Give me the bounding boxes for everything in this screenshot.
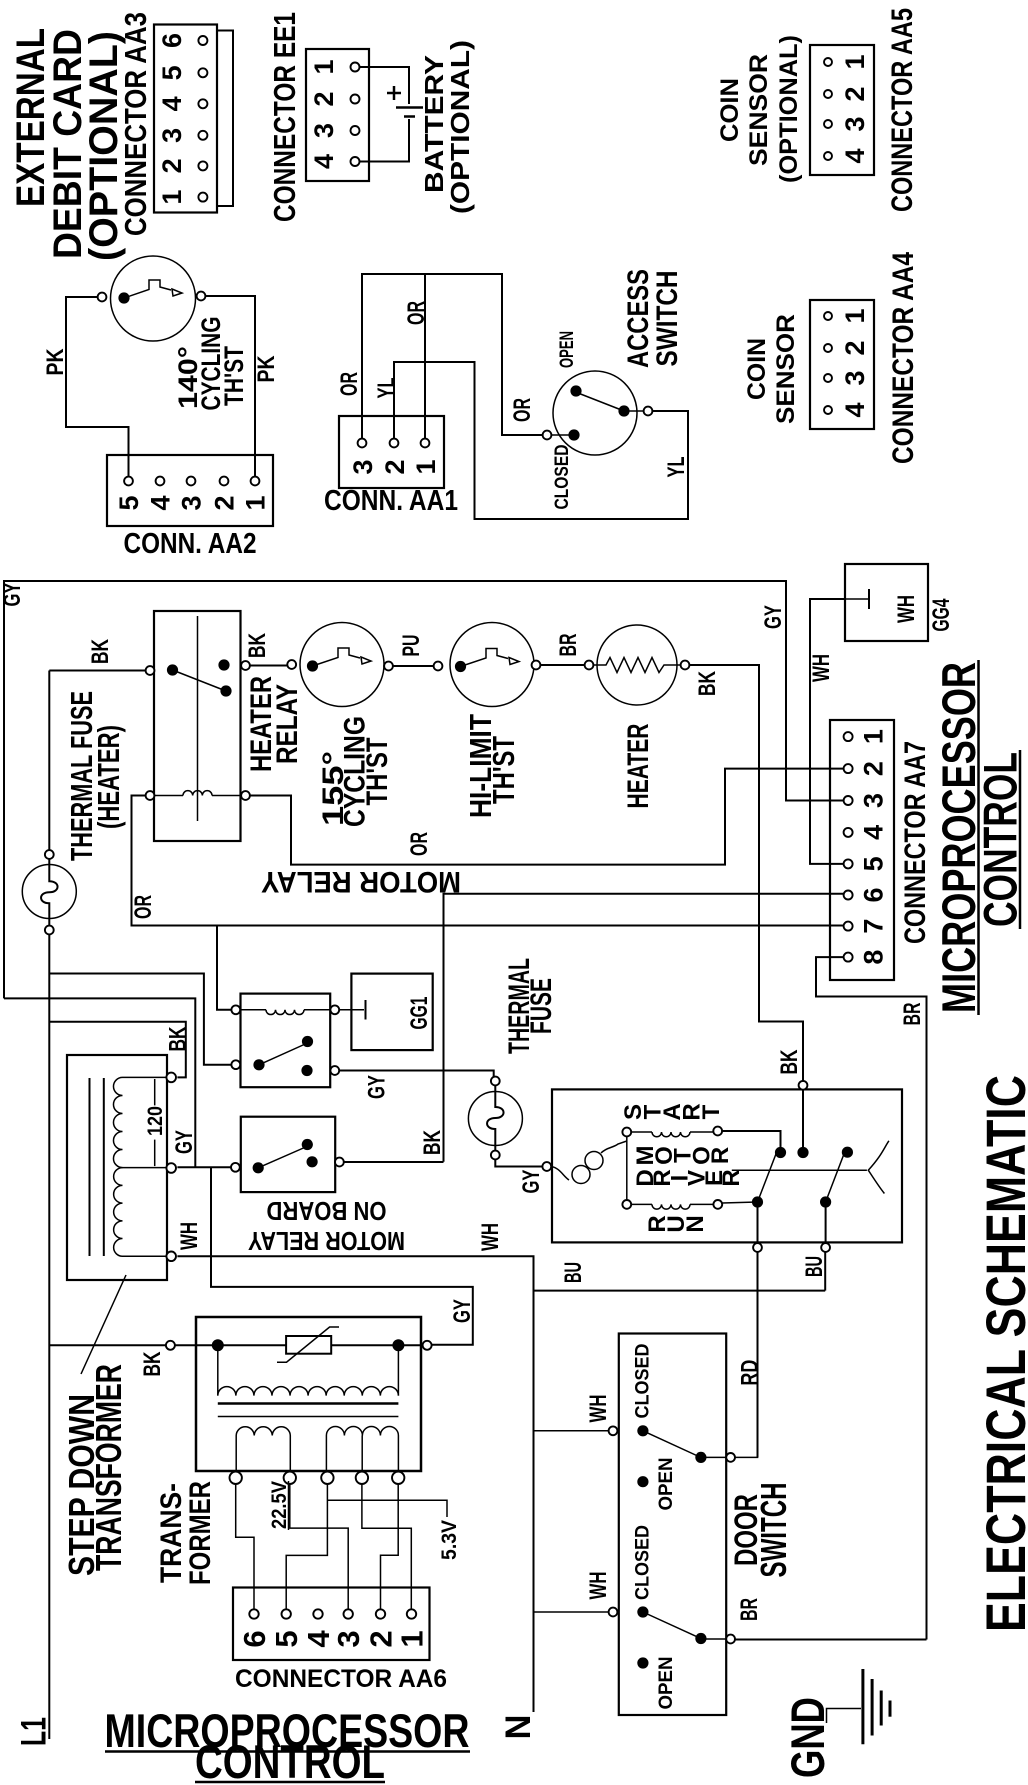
connector AA7 pin 2 xyxy=(844,764,853,773)
connector AA4 pin 3 xyxy=(824,374,832,382)
wire BU from switch2 xyxy=(824,1252,826,1291)
svg-text:2: 2 xyxy=(157,158,187,173)
thermostat 140 cycling body xyxy=(111,256,196,341)
120 volt bracket xyxy=(154,1079,156,1105)
svg-text:CONNECTOR EE1: CONNECTOR EE1 xyxy=(267,12,302,222)
connector AA3 xyxy=(154,25,217,213)
connector EE1 pin 4 xyxy=(351,157,360,166)
svg-text:CONN. AA1: CONN. AA1 xyxy=(324,485,458,517)
svg-text:MOTOR RELAY: MOTOR RELAY xyxy=(248,1226,405,1256)
svg-text:3: 3 xyxy=(859,793,889,808)
wire WH tap3 to N xyxy=(177,1256,533,1712)
wire coil to GG1 xyxy=(339,1009,364,1011)
svg-text:5: 5 xyxy=(114,495,144,510)
svg-text:MOTOR RELAY: MOTOR RELAY xyxy=(261,865,461,898)
svg-text:WH: WH xyxy=(893,595,920,623)
svg-text:4: 4 xyxy=(859,825,889,840)
wire tap2 to AA6 pin3 xyxy=(290,1484,348,1609)
svg-text:CONNECTOR AA6: CONNECTOR AA6 xyxy=(235,1665,447,1693)
connector AA2 pin 2 xyxy=(220,477,229,486)
svg-text:FORMER: FORMER xyxy=(184,1481,217,1585)
wire battery to EE1 pin4 xyxy=(360,119,410,162)
wire tap1 to AA6 pin6 xyxy=(236,1484,254,1609)
wire GY fuse to motor xyxy=(495,1159,542,1166)
wire 5.3V tap xyxy=(327,1500,447,1517)
svg-text:BK: BK xyxy=(139,1351,166,1376)
svg-text:2: 2 xyxy=(380,459,410,474)
wire GY K2 to thermal fuse xyxy=(339,1071,494,1077)
svg-text:RD: RD xyxy=(736,1360,763,1386)
connector AA3 pin 4 xyxy=(198,99,207,108)
svg-text:R: R xyxy=(718,1169,745,1186)
svg-text:OPEN: OPEN xyxy=(656,1657,677,1710)
motor shaft line xyxy=(732,1169,867,1171)
connector AA2 pin 3 xyxy=(187,477,196,486)
svg-text:4: 4 xyxy=(146,495,176,510)
svg-text:SWITCH: SWITCH xyxy=(753,1483,794,1578)
wire BR xyxy=(540,664,584,666)
connector AA7 pin 3 xyxy=(844,796,853,805)
svg-text:3: 3 xyxy=(331,1630,366,1647)
centrifugal actuator chevron xyxy=(868,1141,889,1194)
svg-text:GY: GY xyxy=(518,1170,545,1194)
varistor MOV xyxy=(286,1336,331,1354)
svg-text:1: 1 xyxy=(859,729,889,744)
connector AA5 pin 3 xyxy=(824,120,832,128)
motor centrifugal squiggle xyxy=(551,1167,569,1181)
thermostat 155 cycling body xyxy=(300,623,384,707)
svg-text:PK: PK xyxy=(253,355,280,383)
svg-text:GY: GY xyxy=(449,1299,476,1323)
wire BK L1 to heater relay xyxy=(49,670,145,672)
connector AA6 pin 2 xyxy=(376,1609,385,1618)
svg-text:HEATER: HEATER xyxy=(622,723,655,808)
svg-text:T: T xyxy=(698,1104,725,1119)
K2 coil xyxy=(231,1005,240,1014)
T1 tap circles xyxy=(166,1073,176,1083)
svg-text:FUSE: FUSE xyxy=(525,978,558,1034)
svg-text:COIN: COIN xyxy=(716,78,744,142)
svg-text:(HEATER): (HEATER) xyxy=(91,725,126,829)
svg-text:OPEN: OPEN xyxy=(656,1458,677,1511)
svg-text:TH'ST: TH'ST xyxy=(219,346,249,406)
svg-text:3: 3 xyxy=(840,370,870,385)
svg-text:ON BOARD: ON BOARD xyxy=(267,1196,387,1226)
svg-text:BK: BK xyxy=(165,1026,192,1051)
wire tap2 GY to relay K3 xyxy=(177,1166,231,1168)
T2 core xyxy=(218,1402,399,1405)
wire YL AA1 pin2 xyxy=(394,362,688,519)
ground GG4 symbol xyxy=(845,598,869,600)
svg-text:2: 2 xyxy=(840,340,870,355)
wire tap5 to AA6 pin2 xyxy=(381,1484,399,1609)
svg-text:SENSOR: SENSOR xyxy=(745,54,773,166)
svg-text:PK: PK xyxy=(42,348,69,376)
svg-text:2: 2 xyxy=(859,761,889,776)
connector AA1 xyxy=(339,416,444,488)
connector AA4 pin 1 xyxy=(824,312,832,320)
connector AA5 pin 1 xyxy=(824,58,832,66)
heater resistor zigzag xyxy=(593,658,680,673)
connector AA7 pin 4 xyxy=(844,828,853,837)
wire START to switch xyxy=(722,1131,780,1153)
svg-text:TH'ST: TH'ST xyxy=(486,736,521,804)
connector AA3 pin 5 xyxy=(198,68,207,77)
wire GY rail xyxy=(4,581,843,998)
connector AA3 pin 1 xyxy=(198,193,207,202)
svg-text:BR: BR xyxy=(899,1003,926,1026)
pointer line xyxy=(81,1275,126,1374)
connector AA7 pin 8 xyxy=(844,953,853,962)
svg-text:BK: BK xyxy=(776,1049,803,1074)
svg-text:WH: WH xyxy=(585,1572,612,1600)
svg-text:1: 1 xyxy=(395,1630,430,1647)
wire BR door switch to AA7 xyxy=(735,1639,927,1641)
svg-text:BK: BK xyxy=(87,639,114,664)
svg-text:YL: YL xyxy=(663,457,690,478)
label RD wire xyxy=(735,1456,758,1458)
connector EE1 pin 1 xyxy=(351,63,360,72)
heater relay contact xyxy=(146,666,155,675)
thermostat 155 lever xyxy=(313,648,361,666)
T1 core xyxy=(89,1078,91,1256)
svg-text:BK: BK xyxy=(419,1130,446,1155)
wire GY node down xyxy=(211,1167,473,1345)
svg-text:2: 2 xyxy=(309,91,339,106)
svg-text:1: 1 xyxy=(309,59,339,74)
access switch OPEN contact xyxy=(570,385,581,396)
connector AA4 xyxy=(810,300,874,429)
svg-text:6: 6 xyxy=(237,1630,272,1647)
svg-text:3: 3 xyxy=(309,123,339,138)
door switch 2 xyxy=(609,1608,618,1617)
connector AA2 pin 5 xyxy=(124,477,133,486)
svg-text:CLOSED: CLOSED xyxy=(633,1525,654,1600)
T2 secondary right xyxy=(326,1427,398,1436)
T1 winding xyxy=(113,1077,122,1167)
wire PK right xyxy=(205,296,255,476)
svg-text:6: 6 xyxy=(157,33,187,48)
wire WH GG4 to AA7 pin5 xyxy=(810,599,845,864)
svg-text:R: R xyxy=(707,1147,734,1164)
svg-text:7: 7 xyxy=(859,919,889,934)
T2 secondary left xyxy=(236,1427,290,1436)
heater relay K1 xyxy=(154,611,241,841)
battery B1 xyxy=(396,106,423,109)
svg-text:OR: OR xyxy=(403,301,430,325)
svg-text:1: 1 xyxy=(840,308,870,323)
svg-text:N: N xyxy=(499,1715,538,1740)
svg-text:8: 8 xyxy=(859,950,889,965)
connector AA6 pin 6 xyxy=(249,1609,258,1618)
wire GY rail to GY node xyxy=(4,998,195,1166)
svg-text:2: 2 xyxy=(840,86,870,101)
T2 primary winding xyxy=(217,1345,219,1395)
svg-text:TRANSFORMER: TRANSFORMER xyxy=(88,1364,129,1571)
connector AA4 pin 4 xyxy=(824,406,832,414)
svg-text:GY: GY xyxy=(171,1130,198,1154)
connector AA7 xyxy=(830,720,894,980)
connector AA7 pin 7 xyxy=(844,922,853,931)
T2 primary top wire xyxy=(166,1341,175,1350)
svg-text:CLOSED: CLOSED xyxy=(633,1344,654,1419)
svg-text:WH: WH xyxy=(477,1223,504,1251)
svg-text:OR: OR xyxy=(509,398,536,422)
connector AA7 pin 1 xyxy=(844,732,853,741)
connector EE1 pin 2 xyxy=(351,95,360,104)
wire OR AA1 pin1 xyxy=(424,275,426,439)
wire BR AA7 pin8 xyxy=(816,957,927,1639)
thermostat hi-limit lever xyxy=(461,649,509,667)
connector EE1 xyxy=(306,49,369,181)
connector AA6 pin 5 xyxy=(282,1609,291,1618)
motor relay K2 xyxy=(241,994,331,1088)
heater relay coil xyxy=(146,791,155,800)
svg-text:(OPTIONAL): (OPTIONAL) xyxy=(445,40,475,214)
wire BK L1 to transformer tap1 xyxy=(49,1022,186,1078)
connector AA6 pin 4 xyxy=(313,1609,322,1618)
motor switch 1 xyxy=(752,1196,763,1207)
svg-text:SWITCH: SWITCH xyxy=(651,271,684,367)
svg-text:CONNECTOR AA3: CONNECTOR AA3 xyxy=(118,12,153,236)
access switch contact circles xyxy=(543,431,552,440)
thermostat 140 contacts xyxy=(118,292,129,303)
svg-text:L1: L1 xyxy=(15,1717,54,1746)
svg-text:ELECTRICAL SCHEMATIC: ELECTRICAL SCHEMATIC xyxy=(974,1075,1028,1632)
svg-text:4: 4 xyxy=(840,402,870,417)
svg-text:5: 5 xyxy=(859,856,889,871)
thermostat hi-limit body xyxy=(450,623,534,707)
svg-text:5.3V: 5.3V xyxy=(438,1520,461,1560)
svg-text:OR: OR xyxy=(336,372,363,396)
svg-text:CONTROL: CONTROL xyxy=(974,752,1027,927)
connector AA5 pin 4 xyxy=(824,152,832,160)
K2 contact xyxy=(231,1060,240,1069)
connector AA4 pin 2 xyxy=(824,344,832,352)
transformer T2 box xyxy=(196,1317,421,1471)
svg-text:CONNECTOR AA5: CONNECTOR AA5 xyxy=(886,8,919,212)
connector AA7 pin 6 xyxy=(844,891,853,900)
wire BK into motor xyxy=(799,1081,808,1090)
svg-text:GY: GY xyxy=(0,583,26,607)
connector AA2 pin 1 xyxy=(251,477,260,486)
T2 primary junction dots xyxy=(212,1339,224,1351)
svg-text:CONNECTOR AA4: CONNECTOR AA4 xyxy=(887,252,920,464)
wire WH to door switch 2 xyxy=(534,1611,609,1613)
svg-text:(OPTIONAL): (OPTIONAL) xyxy=(775,35,803,183)
motor M1 box xyxy=(552,1089,902,1242)
svg-text:120: 120 xyxy=(144,1106,167,1136)
svg-text:BU: BU xyxy=(560,1262,587,1283)
wire L1 to transformer T2 xyxy=(49,1344,166,1346)
connector AA7 pin 5 xyxy=(844,859,853,868)
svg-text:5: 5 xyxy=(157,65,187,80)
wire PK left xyxy=(66,297,129,476)
svg-text:4: 4 xyxy=(840,148,870,163)
wire BK heater to motor xyxy=(689,665,803,1081)
wire OR to motor relay coil xyxy=(217,926,231,1010)
START winding xyxy=(622,1128,631,1137)
svg-text:3: 3 xyxy=(157,128,187,143)
svg-text:6: 6 xyxy=(859,887,889,902)
svg-text:BK: BK xyxy=(244,633,271,658)
wire L1 rail xyxy=(48,671,50,851)
connector AA6 pin 3 xyxy=(344,1609,353,1618)
motor GY contact xyxy=(542,1162,551,1171)
connector AA2 pin 4 xyxy=(156,477,165,486)
svg-text:5: 5 xyxy=(269,1630,304,1647)
wire EE1 pin1 to battery xyxy=(360,67,410,104)
wire PU xyxy=(393,665,434,667)
ground GG4 box xyxy=(845,564,928,641)
motor switch 2 xyxy=(842,1147,853,1158)
connector EE1 pin 3 xyxy=(351,126,360,135)
svg-text:YL: YL xyxy=(373,378,400,399)
wire BU line xyxy=(534,1290,826,1292)
svg-text:2: 2 xyxy=(364,1630,399,1647)
connector AA3 pin 6 xyxy=(198,36,207,45)
access switch body xyxy=(553,371,637,455)
wire tap3 to AA6 pin5 xyxy=(286,1484,327,1609)
svg-text:GY: GY xyxy=(364,1075,391,1099)
connector AA1 pin 1 xyxy=(421,439,430,448)
connector AA1 pin 2 xyxy=(390,439,399,448)
step-down transformer T1 xyxy=(67,1055,167,1280)
door switch box xyxy=(619,1334,726,1716)
svg-text:WH: WH xyxy=(176,1222,203,1250)
svg-text:BR: BR xyxy=(736,1598,763,1621)
svg-text:1: 1 xyxy=(840,54,870,69)
motor windings left bus xyxy=(626,1132,628,1204)
svg-text:N: N xyxy=(682,1215,709,1232)
svg-text:CONN. AA2: CONN. AA2 xyxy=(124,528,257,560)
svg-text:1: 1 xyxy=(411,459,441,474)
svg-text:22.5V: 22.5V xyxy=(268,1481,291,1529)
svg-text:OR: OR xyxy=(406,832,433,856)
svg-text:GG4: GG4 xyxy=(928,598,955,631)
svg-text:4: 4 xyxy=(157,96,187,111)
svg-text:3: 3 xyxy=(348,459,378,474)
svg-text:PU: PU xyxy=(398,635,425,657)
svg-text:SENSOR: SENSOR xyxy=(772,314,800,424)
wire OR AA1 pin3 xyxy=(362,274,543,439)
svg-text:RELAY: RELAY xyxy=(271,684,304,764)
connector AA3 pin 3 xyxy=(198,131,207,140)
svg-text:CLOSED: CLOSED xyxy=(552,445,573,510)
battery plus sign xyxy=(387,92,401,95)
wire BK to AA7 pin6 xyxy=(444,894,844,1162)
svg-text:BK: BK xyxy=(694,671,721,696)
wire BK relay outputs xyxy=(344,1161,444,1163)
access switch CLOSED contact xyxy=(568,429,579,440)
svg-text:3: 3 xyxy=(177,495,207,510)
ground GG1 box xyxy=(351,974,432,1051)
svg-text:2: 2 xyxy=(210,495,240,510)
svg-text:WH: WH xyxy=(808,654,835,682)
connector AA3 pin 2 xyxy=(198,161,207,170)
svg-text:CONTROL: CONTROL xyxy=(195,1735,385,1785)
wire tap4 to AA6 pin1 xyxy=(362,1484,411,1609)
heater R1 body xyxy=(597,625,677,705)
svg-text:CONNECTOR AA7: CONNECTOR AA7 xyxy=(899,741,932,944)
svg-text:WH: WH xyxy=(585,1395,612,1423)
connector AA5 pin 2 xyxy=(824,90,832,98)
svg-text:TH'ST: TH'ST xyxy=(361,738,394,806)
wire OR coil-right to AA7 pin2 xyxy=(250,769,843,865)
svg-text:1: 1 xyxy=(241,495,271,510)
svg-text:OR: OR xyxy=(130,895,157,919)
connector AA5 xyxy=(810,45,874,175)
ground symbol xyxy=(827,1709,862,1724)
connector AA2 xyxy=(107,455,273,526)
thermal fuse (motor) xyxy=(468,1092,522,1146)
thermal fuse (heater) xyxy=(22,865,76,919)
svg-text:BR: BR xyxy=(555,634,582,657)
svg-text:COIN: COIN xyxy=(743,338,771,400)
motor relay on board K3 xyxy=(241,1117,335,1192)
svg-text:4: 4 xyxy=(309,154,339,169)
wire WH to door switch 1 xyxy=(534,1430,609,1432)
T2 tap circles xyxy=(230,1472,242,1484)
svg-text:GY: GY xyxy=(760,605,787,629)
thermostat 140 lever xyxy=(124,280,171,298)
wire BK relay to 155 xyxy=(250,665,287,667)
svg-text:3: 3 xyxy=(840,116,870,131)
door switch 1 xyxy=(609,1426,618,1435)
access switch common + lever xyxy=(618,405,629,416)
svg-text:GG1: GG1 xyxy=(406,997,433,1030)
RUN winding xyxy=(622,1200,631,1209)
wire OR coil-left to AA7 pin7 xyxy=(132,796,844,926)
connector AA6 xyxy=(233,1588,430,1661)
svg-text:OPEN: OPEN xyxy=(557,331,578,368)
svg-text:1: 1 xyxy=(157,190,187,205)
connector AA6 pin 1 xyxy=(407,1609,416,1618)
wire RD switch1 to door switch xyxy=(757,1252,759,1458)
wire L1 to motor relay contact xyxy=(49,974,231,1065)
svg-text:BU: BU xyxy=(801,1256,828,1277)
connector AA1 pin 3 xyxy=(358,439,367,448)
thermostat 140 triangle xyxy=(172,289,182,296)
